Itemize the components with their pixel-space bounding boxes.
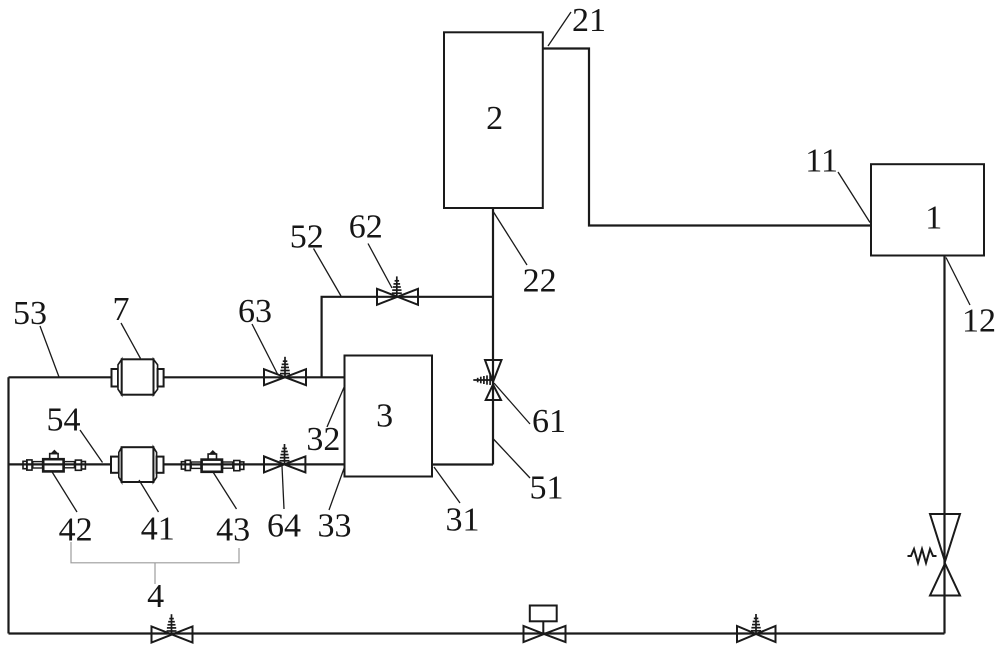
bracket for group 4 — [71, 542, 239, 584]
svg-text:52: 52 — [290, 219, 324, 256]
leader 31 — [434, 467, 460, 503]
valve 61: vertical valve on box2 drop — [473, 360, 501, 400]
leader 42 — [52, 471, 78, 512]
svg-text:31: 31 — [446, 502, 480, 539]
svg-text:12: 12 — [962, 303, 996, 340]
wire: 31-line box3 right to vertical — [433, 463, 493, 465]
box 3 — [345, 356, 433, 477]
component 42: fitting-valve on 54-line — [23, 451, 85, 472]
leader 22 — [494, 212, 528, 265]
svg-text:53: 53 — [13, 295, 47, 332]
box 1 — [871, 164, 984, 255]
component 41: filter-drier on 54-line — [111, 447, 164, 482]
wire: top line from box2 to box1 — [543, 49, 871, 226]
valve bottom-middle with solenoid box — [524, 606, 566, 643]
leader 33 — [329, 467, 345, 510]
valve 63 — [264, 357, 306, 385]
svg-text:64: 64 — [267, 508, 301, 545]
svg-text:33: 33 — [318, 508, 352, 545]
wire: right vertical from box1 — [943, 256, 945, 634]
svg-text:22: 22 — [523, 263, 557, 300]
leader 64 — [282, 466, 284, 509]
component 7: muffler on 53-line — [112, 359, 164, 394]
svg-text:1: 1 — [925, 200, 942, 237]
leader 63 — [252, 324, 278, 374]
leader 51 — [493, 438, 531, 478]
leader 52 — [314, 249, 342, 297]
valve 64 — [264, 444, 305, 472]
wire: 52-line with drop to 53-line — [322, 297, 493, 378]
leader lines — [40, 12, 970, 512]
component 43: fitting-valve on 54-line — [181, 451, 243, 472]
svg-text:7: 7 — [113, 291, 130, 328]
svg-text:4: 4 — [147, 578, 164, 615]
leader 12 — [946, 258, 970, 306]
leader 41 — [139, 480, 159, 512]
svg-text:61: 61 — [532, 403, 566, 440]
leader 32 — [327, 385, 345, 427]
svg-text:21: 21 — [572, 2, 606, 39]
leader 43 — [213, 472, 237, 509]
svg-text:42: 42 — [59, 512, 93, 549]
valve bottom-left — [152, 614, 193, 642]
svg-text:62: 62 — [349, 209, 383, 246]
wire: bottom line — [9, 632, 945, 634]
svg-text:32: 32 — [306, 421, 340, 458]
valve bottom-right — [737, 614, 776, 642]
box 2 — [444, 32, 543, 208]
leader 61 — [494, 383, 530, 424]
svg-text:2: 2 — [486, 100, 503, 137]
svg-text:3: 3 — [376, 398, 393, 435]
leader 62 — [368, 244, 392, 289]
wire: 53-line — [9, 376, 345, 378]
svg-text:41: 41 — [141, 511, 175, 548]
valve 62 — [377, 276, 418, 304]
leader 53 — [40, 326, 59, 377]
wire: vertical from box2 bottom through valve 61 — [492, 208, 494, 465]
svg-text:63: 63 — [238, 293, 272, 330]
svg-text:43: 43 — [216, 512, 250, 549]
wire: 54-line — [9, 463, 345, 465]
leader 54 — [80, 430, 103, 463]
svg-text:51: 51 — [530, 470, 564, 507]
leader 11 — [838, 172, 870, 223]
leader 21 — [548, 12, 571, 46]
svg-text:54: 54 — [47, 402, 81, 439]
leader 7 — [121, 323, 141, 359]
valve on right vertical (expansion valve) — [908, 514, 961, 596]
svg-text:11: 11 — [805, 143, 838, 180]
wire: left vertical — [7, 377, 9, 633]
